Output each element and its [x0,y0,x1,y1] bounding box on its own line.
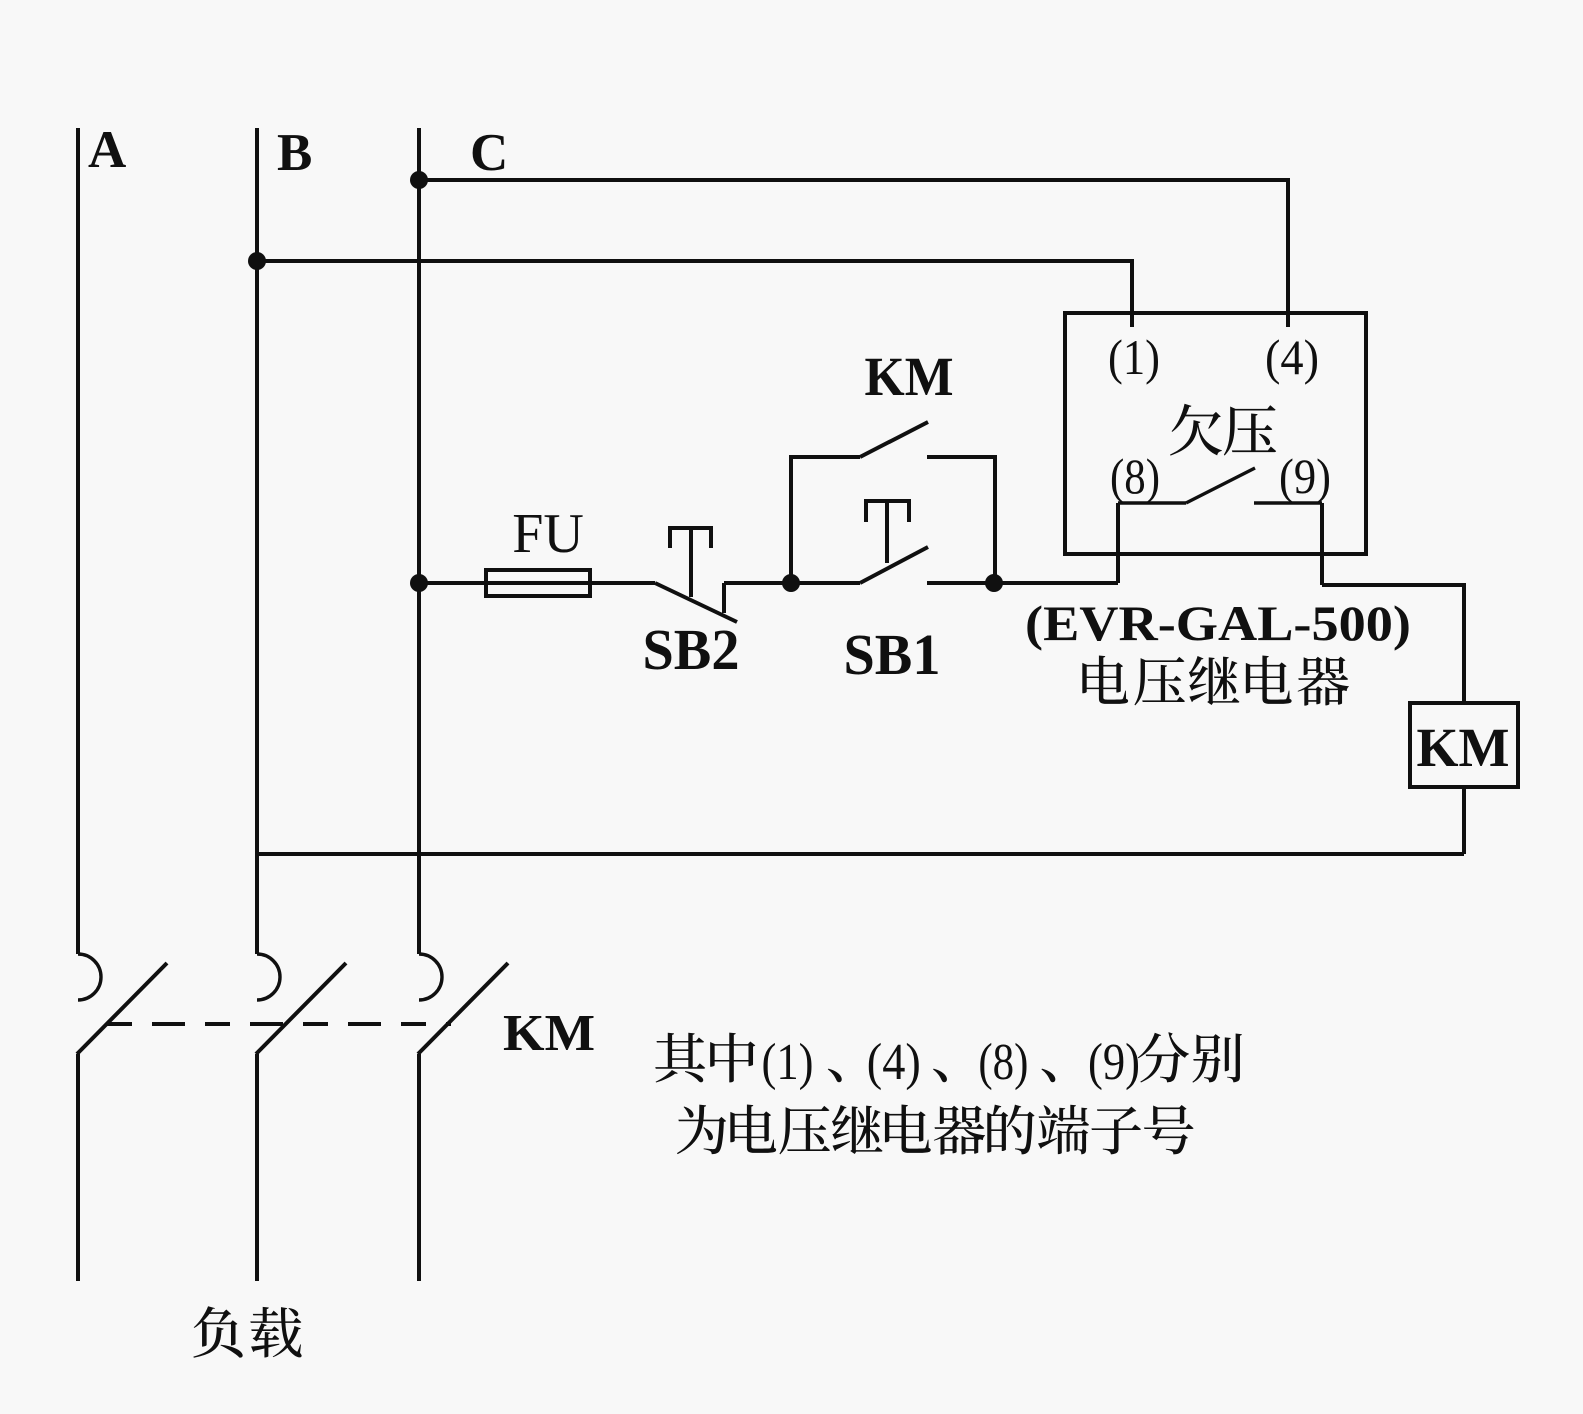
KM main contact fixed terminal arc (phase C) [419,954,442,1000]
svg-text:(4): (4) [1265,329,1319,385]
wire coil bottom down [1462,787,1466,854]
phase line A (lower segment) [76,1054,80,1281]
KM auxiliary contact right lead [927,457,995,583]
svg-text:SB2: SB2 [643,617,740,682]
relay internal contact left stub [1118,501,1186,504]
KM main contact fixed terminal arc (phase A) [78,954,101,1000]
wire relay pin 9 to coil KM [1322,585,1464,703]
pushbutton SB2 fixed contact stub [722,583,726,613]
pushbutton SB1 blade (NO) [860,547,928,583]
phase line C (upper segment) [417,128,421,954]
note line 2: 为电压继电器的端子号 [677,1105,726,1155]
junction on line B [248,252,266,270]
svg-text:(1): (1) [1108,329,1160,385]
svg-text:(EVR-GAL-500): (EVR-GAL-500) [1025,595,1411,651]
KM main contact blade (phase C) [418,963,508,1054]
KM main contact blade (phase B) [256,963,346,1054]
return wire to line B [257,852,1464,856]
phase line B (upper segment) [255,128,259,954]
relay pin 8 lead [1116,503,1120,583]
pushbutton SB2 blade (NC) [655,583,737,622]
wire junction to SB1 [791,581,860,585]
svg-text:(9): (9) [1279,448,1331,504]
svg-text:FU: FU [512,503,584,565]
relay name label 电压继电器 [1082,655,1128,703]
svg-text:KM: KM [865,346,954,407]
relay internal contact right stub [1254,501,1322,504]
KM main contact fixed terminal arc (phase B) [257,954,280,1000]
junction left of SB1/KM [782,574,800,592]
KM auxiliary contact left lead [791,457,860,583]
relay function label 欠压 [1170,404,1222,456]
svg-text:SB1: SB1 [844,622,941,687]
junction on line C (control branch) [410,574,428,592]
svg-text:(4): (4) [867,1034,921,1091]
wire SB1 to junction [927,581,994,585]
note line 1: 其中(1)、(4)、(8)、(9)分别 [655,1033,705,1083]
svg-text:A: A [88,121,126,179]
wire SB2 to junction [724,581,791,585]
SB1 actuator head [866,501,909,522]
mechanical linkage dashed line [107,1022,451,1026]
relay pin 9 lead [1320,503,1324,585]
SB2 actuator head [670,528,711,548]
KM main contact blade (phase A) [77,963,167,1054]
phase line B (lower segment) [255,1054,259,1281]
wire from line C node to relay terminal (4) [419,180,1288,327]
fuse FU body [486,570,590,596]
junction on line C [410,171,428,189]
load label 负载 [193,1306,242,1358]
SB2 actuator stem [689,530,693,597]
svg-text:B: B [277,124,312,182]
svg-text:(1): (1) [762,1034,814,1091]
voltage relay U1 box [1065,313,1366,554]
svg-text:KM: KM [1417,717,1510,778]
contactor coil KM box [1410,703,1518,787]
wire from line B node to relay terminal (1) [257,261,1132,327]
svg-text:C: C [470,124,508,182]
svg-text:(8): (8) [978,1034,1028,1091]
junction right of SB1/KM [985,574,1003,592]
SB1 actuator stem [885,503,889,563]
wire junction to relay pin 8 [994,581,1118,585]
control wire from line C to fuse [419,581,655,585]
svg-text:KM: KM [503,1005,595,1062]
relay internal contact blade [1186,468,1255,503]
phase line A (upper segment) [76,128,80,954]
phase line C (lower segment) [417,1054,421,1281]
KM auxiliary contact blade [860,422,928,457]
svg-text:(9): (9) [1088,1034,1140,1091]
svg-text:(8): (8) [1110,448,1160,504]
